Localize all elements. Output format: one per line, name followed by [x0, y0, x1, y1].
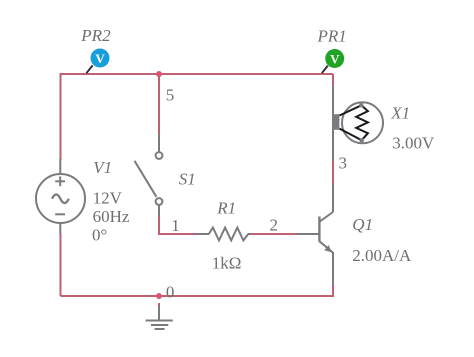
probe PR2 circle: [91, 49, 110, 68]
svg-text:3: 3: [339, 153, 348, 172]
probe PR2 pointer: [86, 65, 92, 73]
lamp X1 filament: [340, 105, 368, 140]
wire left upper (V1 top lead net): [60, 73, 62, 160]
svg-text:V: V: [330, 51, 340, 66]
svg-text:12V: 12V: [93, 189, 123, 208]
svg-text:0°: 0°: [92, 225, 107, 244]
wire left lower (V1 bottom to ground net): [60, 234, 62, 297]
resistor R1: [196, 228, 252, 241]
svg-text:3.00V: 3.00V: [392, 134, 435, 153]
ground: [146, 303, 173, 329]
svg-text:S1: S1: [179, 170, 196, 189]
lamp filament end dots: [359, 103, 363, 107]
svg-text:2.00A/A: 2.00A/A: [352, 246, 412, 265]
transistor Q1 emitter arrow: [324, 245, 331, 252]
svg-text:Q1: Q1: [352, 215, 373, 234]
wire top (net from V1+ to lamp): [61, 73, 334, 75]
svg-text:PR2: PR2: [80, 26, 111, 45]
wire node 3 (lamp to collector): [332, 74, 334, 184]
svg-text:V: V: [95, 51, 105, 66]
svg-text:1kΩ: 1kΩ: [212, 253, 242, 272]
lamp X1 base block: [333, 114, 340, 130]
probe PR1 circle: [325, 49, 344, 68]
svg-text:1: 1: [171, 216, 180, 235]
wire node 1 (switch to R1): [159, 216, 197, 235]
wire bottom (ground net): [61, 295, 334, 297]
wire emitter to bottom: [332, 285, 333, 296]
svg-text:5: 5: [166, 85, 175, 104]
svg-text:V1: V1: [93, 158, 112, 177]
svg-text:X1: X1: [390, 103, 410, 122]
switch S1: [135, 135, 163, 217]
node 5 junction dot: [156, 71, 162, 77]
svg-text:0: 0: [166, 283, 175, 302]
probe PR1 pointer: [322, 66, 328, 74]
svg-text:60Hz: 60Hz: [93, 207, 130, 226]
svg-text:PR1: PR1: [317, 27, 347, 46]
lamp X1: [333, 85, 383, 161]
node 0 junction dot: [156, 293, 162, 299]
transistor Q1: [297, 183, 333, 286]
wire node 5 vertical (junction to switch): [158, 74, 160, 136]
svg-text:2: 2: [270, 215, 279, 234]
source V1: [36, 159, 85, 235]
wire node 2 (R1 to Q1 base): [251, 233, 298, 235]
svg-text:R1: R1: [216, 199, 236, 218]
